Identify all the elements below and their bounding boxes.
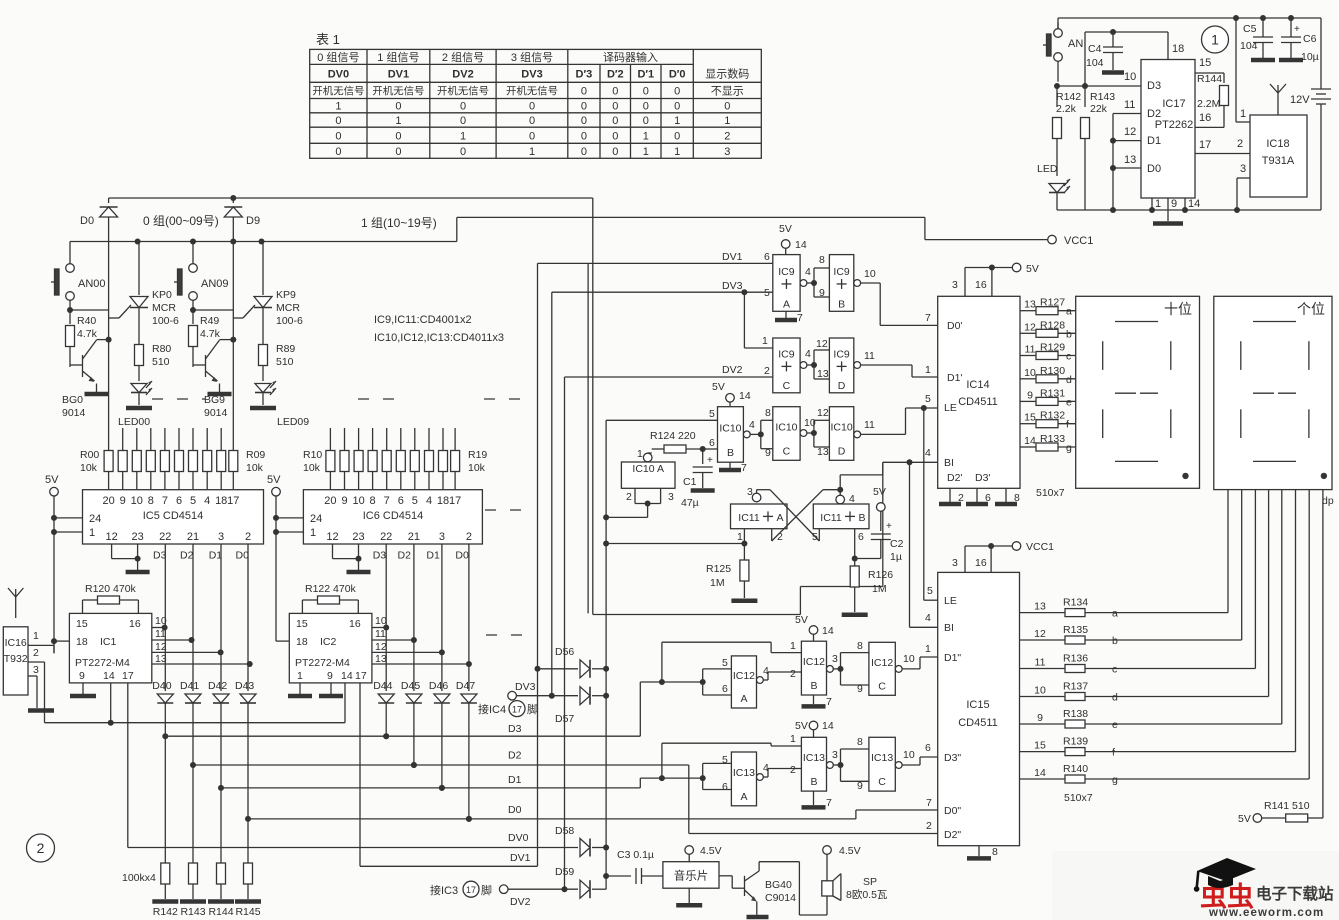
watermark text 虫虫 — [1200, 882, 1254, 912]
svg-text:IC9: IC9 — [778, 348, 795, 360]
svg-text:脚: 脚 — [481, 883, 492, 897]
svg-text:3: 3 — [218, 531, 224, 543]
svg-text:1: 1 — [674, 115, 680, 127]
svg-text:AN: AN — [1068, 38, 1083, 50]
svg-text:8: 8 — [1014, 492, 1020, 504]
svg-text:R144: R144 — [208, 906, 233, 918]
svg-text:IC9: IC9 — [778, 266, 795, 278]
wire bus row D1 — [221, 787, 640, 789]
svg-text:2: 2 — [245, 531, 251, 543]
IC14 ground pins 2 6 8 — [949, 488, 951, 502]
svg-text:D0': D0' — [947, 320, 962, 332]
svg-text:R145: R145 — [235, 906, 260, 918]
svg-text:D1: D1 — [209, 550, 223, 562]
svg-text:5: 5 — [812, 531, 818, 543]
svg-text:24: 24 — [89, 513, 101, 525]
svg-text:C: C — [878, 776, 886, 788]
svg-text:0: 0 — [612, 86, 618, 98]
svg-text:0: 0 — [335, 115, 341, 127]
svg-text:IC9,IC11:CD4001x2: IC9,IC11:CD4001x2 — [374, 314, 472, 326]
capacitor C1 47u — [681, 449, 715, 509]
wire DV2 input — [565, 376, 773, 378]
wire segment g riser to units display — [1308, 490, 1310, 779]
gate IC12 A — [722, 656, 757, 708]
svg-text:c: c — [1066, 351, 1071, 363]
svg-text:104: 104 — [1240, 40, 1258, 52]
svg-text:13: 13 — [1124, 154, 1136, 166]
svg-text:4.5V: 4.5V — [839, 845, 861, 857]
svg-text:4: 4 — [925, 447, 931, 459]
svg-text:0: 0 — [612, 131, 618, 143]
svg-text:6: 6 — [709, 437, 715, 449]
resistor R124 220 — [648, 430, 706, 453]
svg-text:C: C — [878, 680, 886, 692]
IC17 pin 18 top — [1167, 32, 1169, 60]
svg-text:3: 3 — [33, 664, 39, 676]
svg-text:17: 17 — [355, 670, 367, 682]
svg-text:0: 0 — [612, 146, 618, 158]
svg-text:18: 18 — [76, 636, 88, 648]
svg-text:47µ: 47µ — [681, 497, 699, 509]
svg-text:D2": D2" — [944, 829, 961, 841]
resistor R126 1M — [842, 559, 894, 615]
svg-text:T931A: T931A — [1262, 155, 1295, 167]
svg-text:2: 2 — [926, 820, 932, 832]
svg-text:D3: D3 — [373, 550, 387, 562]
wire IC10B pin6 node — [703, 448, 718, 450]
svg-text:d: d — [1112, 692, 1118, 704]
dashed continuation marks IC6 row — [485, 510, 536, 635]
IC6 CD4514 — [303, 490, 482, 544]
svg-text:17: 17 — [512, 705, 522, 715]
resistor R129 segment c — [1020, 342, 1076, 363]
svg-text:0: 0 — [581, 146, 587, 158]
wire DV1 input — [538, 262, 773, 264]
wire DV2 riser to gates — [564, 377, 566, 889]
ground IC2 pin 9 — [330, 683, 332, 694]
svg-text:16: 16 — [349, 618, 361, 630]
svg-text:B: B — [858, 512, 865, 524]
music chip 音乐片 — [663, 862, 719, 889]
svg-text:开机无信号: 开机无信号 — [372, 85, 424, 98]
resistor R130 segment d — [1020, 365, 1076, 386]
svg-text:10k: 10k — [468, 462, 486, 474]
svg-text:9: 9 — [341, 495, 347, 507]
svg-text:3 组信号: 3 组信号 — [511, 50, 553, 64]
diode D9 — [224, 198, 260, 242]
svg-text:12: 12 — [816, 338, 828, 350]
svg-text:6: 6 — [858, 531, 864, 543]
svg-text:0: 0 — [529, 101, 535, 113]
svg-text:VCC1: VCC1 — [1064, 235, 1093, 247]
svg-text:MCR: MCR — [152, 302, 176, 314]
ground IC13B pin 7 — [813, 791, 815, 805]
node AN00/R40/D0 junction — [67, 307, 73, 313]
resistor R139 segment f — [1020, 736, 1296, 759]
wire IC13B out to IC13C inputs — [840, 749, 842, 765]
wire IC10A pins 2,3 bracket — [634, 488, 636, 503]
wire bus row DV3 — [517, 695, 579, 697]
IC11A pin 1 — [743, 529, 745, 544]
pushbutton AN09 — [174, 239, 229, 311]
svg-text:14: 14 — [739, 390, 751, 402]
wire decoder column D1 (IC5 pin3) — [220, 544, 222, 691]
svg-text:1: 1 — [925, 364, 931, 376]
thyristor KP0 MCR100-6 — [109, 239, 179, 345]
resistor R140 segment g — [1020, 763, 1310, 786]
svg-text:14: 14 — [1188, 198, 1200, 210]
svg-text:14: 14 — [822, 625, 834, 637]
IC18 pin 3 to ground rail — [1237, 177, 1250, 179]
gate IC10 D — [829, 407, 853, 461]
wire R125 row — [606, 543, 744, 545]
svg-text:f: f — [1112, 747, 1115, 759]
svg-text:b: b — [1066, 328, 1072, 340]
svg-text:5V: 5V — [873, 486, 886, 498]
wire D0 anode column — [108, 242, 110, 311]
svg-text:0: 0 — [395, 101, 401, 113]
svg-text:IC2: IC2 — [320, 636, 337, 648]
svg-text:0: 0 — [395, 131, 401, 143]
svg-text:R135: R135 — [1063, 624, 1088, 636]
svg-text:10: 10 — [903, 653, 915, 665]
svg-text:12: 12 — [375, 641, 387, 653]
svg-text:D′0: D′0 — [669, 69, 686, 81]
wire IC10B pin5 feedback — [606, 419, 717, 421]
svg-text:R00: R00 — [80, 449, 99, 461]
gate IC10 C — [773, 407, 800, 461]
wire IC1 pin 18 to 5V bus — [54, 640, 69, 642]
resistor array R00-R09 10k — [80, 428, 265, 490]
svg-text:C2: C2 — [890, 538, 904, 550]
svg-text:7: 7 — [926, 797, 932, 809]
svg-text:IC9: IC9 — [833, 348, 850, 360]
watermark background — [1052, 851, 1339, 920]
IC17 pin 16 — [1195, 126, 1224, 128]
svg-text:0: 0 — [460, 101, 466, 113]
svg-text:8: 8 — [819, 254, 825, 266]
node AN/R142/R143 junction — [1054, 83, 1060, 89]
svg-text:0: 0 — [674, 131, 680, 143]
svg-text:1: 1 — [1155, 198, 1161, 210]
wire IC11B pin4 to BI bus — [839, 475, 841, 490]
svg-text:5: 5 — [412, 495, 418, 507]
svg-text:11: 11 — [375, 628, 386, 640]
ground IC12B pin 7 — [813, 695, 815, 704]
ground BG40 emitter — [747, 915, 769, 920]
svg-text:个位: 个位 — [1297, 301, 1325, 317]
svg-text:DV3: DV3 — [515, 681, 536, 693]
svg-text:1: 1 — [89, 527, 95, 539]
ground BG0 emitter — [85, 392, 109, 397]
svg-text:5V: 5V — [1026, 263, 1039, 275]
svg-text:D3': D3' — [975, 472, 990, 484]
svg-text:DV1: DV1 — [388, 69, 409, 81]
svg-text:8: 8 — [857, 640, 863, 652]
svg-text:R140: R140 — [1063, 763, 1088, 775]
gate IC13 B — [801, 737, 826, 791]
gate IC13 C — [869, 737, 895, 791]
IC11A pin 3 terminal — [752, 493, 761, 502]
svg-text:D2: D2 — [180, 550, 194, 562]
svg-text:15: 15 — [76, 618, 88, 630]
svg-text:C: C — [783, 380, 791, 392]
svg-text:D3: D3 — [153, 550, 167, 562]
diode D57 — [555, 687, 609, 725]
svg-text:3: 3 — [724, 146, 730, 158]
svg-text:IC11: IC11 — [820, 512, 842, 524]
svg-text:1: 1 — [637, 448, 643, 460]
wire IC9A out to IC9B inputs — [813, 268, 815, 283]
svg-text:13: 13 — [817, 368, 829, 380]
svg-text:4: 4 — [925, 612, 931, 624]
svg-text:2: 2 — [724, 131, 730, 143]
svg-text:DV1: DV1 — [510, 852, 531, 864]
svg-text:1: 1 — [643, 131, 649, 143]
svg-text:D42: D42 — [208, 680, 227, 692]
diode D0 — [80, 198, 118, 242]
IC14 CD4511 — [938, 296, 1020, 488]
svg-text:510: 510 — [152, 356, 170, 368]
svg-text:R122 470k: R122 470k — [305, 583, 357, 595]
gate IC9 B — [829, 255, 853, 312]
svg-text:5V: 5V — [712, 381, 725, 393]
svg-text:+: + — [707, 455, 713, 466]
svg-text:R19: R19 — [468, 449, 487, 461]
svg-text:CD4511: CD4511 — [958, 717, 998, 729]
svg-text:0: 0 — [674, 101, 680, 113]
svg-text:3: 3 — [668, 491, 674, 503]
svg-text:D0: D0 — [455, 550, 469, 562]
svg-text:B: B — [838, 298, 845, 310]
svg-text:IC11: IC11 — [738, 512, 760, 524]
svg-text:6: 6 — [764, 251, 770, 263]
svg-text:R132: R132 — [1040, 410, 1065, 422]
thyristor KP9 MCR100-6 — [233, 239, 303, 345]
seven-segment display units 个位 — [1214, 296, 1332, 489]
svg-text:7: 7 — [826, 797, 832, 809]
wire segment d riser to units display — [1268, 490, 1270, 697]
svg-text:6: 6 — [985, 492, 991, 504]
svg-text:1: 1 — [297, 670, 303, 682]
svg-text:1: 1 — [460, 131, 466, 143]
svg-text:8欧0.5瓦: 8欧0.5瓦 — [846, 889, 888, 901]
antenna (transmitter) — [1270, 84, 1286, 115]
svg-text:13: 13 — [375, 653, 387, 665]
svg-text:C6: C6 — [1303, 33, 1317, 45]
svg-text:0: 0 — [643, 101, 649, 113]
capacitor C3 0.1u — [606, 849, 663, 884]
diode D41 — [180, 680, 201, 768]
svg-text:音乐片: 音乐片 — [674, 869, 709, 883]
IC5 CD4514 — [83, 490, 264, 544]
node D9 cathode on group-0 rail — [230, 195, 236, 201]
svg-text:100-6: 100-6 — [152, 315, 179, 327]
resistor R128 segment b — [1020, 319, 1076, 340]
svg-text:0: 0 — [335, 146, 341, 158]
IC18 T931A — [1250, 115, 1307, 197]
svg-text:接IC3: 接IC3 — [430, 884, 458, 897]
ground IC2 pin 1 — [299, 683, 301, 694]
svg-text:2: 2 — [790, 668, 796, 680]
svg-text:510: 510 — [276, 356, 294, 368]
svg-text:8: 8 — [370, 495, 376, 507]
wire segment a riser to units display — [1227, 490, 1229, 613]
svg-text:1µ: 1µ — [890, 551, 902, 563]
wire keypad common row — [70, 241, 457, 243]
wire LE bus IC14-IC15 — [923, 408, 925, 600]
wire R143 node up to C4/pin18 net — [1084, 32, 1086, 86]
wire bus row D0 — [248, 818, 856, 820]
resistor R138 segment e — [1020, 708, 1282, 731]
svg-text:IC10 A: IC10 A — [632, 463, 664, 475]
svg-text:BI: BI — [944, 457, 954, 469]
terminal VCC1 (top) — [1048, 235, 1057, 244]
gate IC9 A — [764, 251, 800, 311]
svg-text:1 组(10~19号): 1 组(10~19号) — [361, 216, 437, 230]
svg-text:C4: C4 — [1088, 43, 1102, 55]
svg-text:IC10: IC10 — [719, 422, 741, 434]
ground under R145 — [235, 899, 261, 904]
watermark text 电子下载站 — [1256, 884, 1334, 903]
svg-text:R09: R09 — [246, 449, 265, 461]
IC9D output pin 11 to IC14 D1-prime — [854, 362, 861, 369]
svg-text:2: 2 — [958, 492, 964, 504]
svg-text:1: 1 — [33, 630, 39, 642]
svg-text:10: 10 — [1034, 685, 1046, 697]
svg-text:PT2272-M4: PT2272-M4 — [75, 657, 130, 669]
wire bottom ground rail — [1057, 209, 1321, 211]
svg-text:7: 7 — [826, 696, 832, 708]
wire segment b riser to units display — [1241, 490, 1243, 640]
wire D0 row to IC15 D0" — [855, 810, 857, 819]
svg-text:十位: 十位 — [1164, 301, 1192, 317]
svg-text:0: 0 — [612, 101, 618, 113]
svg-text:3: 3 — [952, 279, 958, 291]
svg-text:IC9: IC9 — [833, 266, 850, 278]
svg-text:R142: R142 — [153, 906, 178, 918]
svg-text:A: A — [740, 791, 747, 803]
svg-text:R143: R143 — [180, 906, 205, 918]
svg-text:9: 9 — [1171, 198, 1177, 210]
svg-text:18: 18 — [296, 636, 308, 648]
wire segment f riser to units display — [1295, 490, 1297, 752]
svg-text:R120 470k: R120 470k — [85, 583, 137, 595]
svg-text:+: + — [886, 521, 892, 532]
svg-text:R129: R129 — [1040, 342, 1065, 354]
svg-text:9: 9 — [1037, 712, 1043, 724]
ground under R142 — [152, 899, 178, 904]
diode D46 — [429, 544, 450, 791]
wire AN top to rail — [1057, 18, 1059, 29]
svg-text:15: 15 — [1024, 412, 1036, 424]
svg-text:0 组(00~09号): 0 组(00~09号) — [143, 214, 219, 228]
svg-text:17: 17 — [466, 885, 476, 895]
svg-text:4: 4 — [426, 495, 432, 507]
wire IC12B out to IC12C inputs — [840, 653, 842, 669]
svg-text:4: 4 — [204, 495, 210, 507]
svg-text:D43: D43 — [235, 680, 254, 692]
svg-text:PT2262: PT2262 — [1155, 119, 1194, 131]
svg-text:5V: 5V — [45, 474, 59, 486]
gate IC9 D — [829, 338, 853, 393]
svg-text:3: 3 — [952, 557, 958, 569]
wire BG40 collector to speaker — [759, 861, 799, 863]
IC13C output pin 10 to IC15 D3" — [895, 762, 902, 769]
wire decoder column D2 (IC5 pin21) — [192, 544, 194, 691]
svg-text:8: 8 — [857, 736, 863, 748]
node IC1 pin 14 on row — [108, 720, 114, 726]
IC11B pin 4 terminal — [836, 495, 845, 504]
wire DV1 riser to gates — [537, 669, 539, 867]
svg-text:D0": D0" — [944, 805, 961, 817]
terminal 4.5V speaker — [823, 846, 832, 855]
svg-text:12: 12 — [817, 407, 829, 419]
resistor R89 510 — [259, 343, 296, 381]
svg-text:D2: D2 — [508, 750, 522, 762]
wire D1 row riser to IC13A inputs — [639, 778, 641, 788]
svg-text:9: 9 — [857, 780, 863, 792]
svg-text:5V: 5V — [795, 720, 808, 732]
svg-text:D′2: D′2 — [607, 69, 624, 81]
IC12B output node pin 3 — [827, 666, 834, 673]
resistor R122 470k feedback — [302, 583, 358, 613]
svg-text:D1: D1 — [1147, 135, 1161, 147]
svg-text:2: 2 — [790, 764, 796, 776]
svg-text:R127: R127 — [1040, 297, 1065, 309]
svg-text:R89: R89 — [276, 343, 295, 355]
ground BG9 emitter — [208, 392, 232, 397]
svg-text:2: 2 — [1237, 138, 1243, 150]
svg-text:4.5V: 4.5V — [700, 845, 722, 857]
svg-text:4: 4 — [849, 493, 855, 505]
svg-text:R131: R131 — [1040, 387, 1065, 399]
ground under R143 — [180, 899, 206, 904]
svg-text:C5: C5 — [1243, 23, 1257, 35]
ground IC16 pin 3 — [28, 708, 54, 713]
resistor R137 segment d — [1020, 681, 1269, 704]
wire IC1 pin 17 to DV0 row — [127, 683, 129, 848]
svg-text:a: a — [1112, 608, 1118, 620]
svg-text:R142: R142 — [1056, 91, 1081, 103]
svg-text:0: 0 — [581, 86, 587, 98]
svg-text:a: a — [1066, 306, 1072, 318]
svg-text:15: 15 — [296, 618, 308, 630]
svg-text:R128: R128 — [1040, 319, 1065, 331]
svg-text:LED09: LED09 — [277, 416, 309, 428]
ground under IC17 pin 9 — [1153, 221, 1183, 226]
svg-text:4.7k: 4.7k — [200, 328, 221, 340]
svg-text:0: 0 — [724, 101, 730, 113]
diode D43 — [235, 680, 256, 822]
svg-text:R136: R136 — [1063, 653, 1088, 665]
svg-text:21: 21 — [187, 531, 199, 543]
IC11B pin 6 — [854, 529, 856, 559]
svg-text:DV3: DV3 — [722, 280, 743, 292]
svg-text:D45: D45 — [401, 680, 420, 692]
svg-text:17: 17 — [227, 495, 239, 507]
wire group-0 top rail — [109, 197, 593, 199]
svg-text:D3": D3" — [944, 752, 961, 764]
svg-text:A: A — [776, 512, 783, 524]
svg-text:表 1: 表 1 — [316, 32, 340, 47]
svg-text:0: 0 — [529, 131, 535, 143]
svg-text:11: 11 — [155, 628, 166, 640]
svg-text:IC1: IC1 — [100, 636, 117, 648]
svg-text:R124 220: R124 220 — [650, 430, 696, 442]
svg-text:DV2: DV2 — [510, 896, 531, 908]
svg-text:0: 0 — [581, 101, 587, 113]
